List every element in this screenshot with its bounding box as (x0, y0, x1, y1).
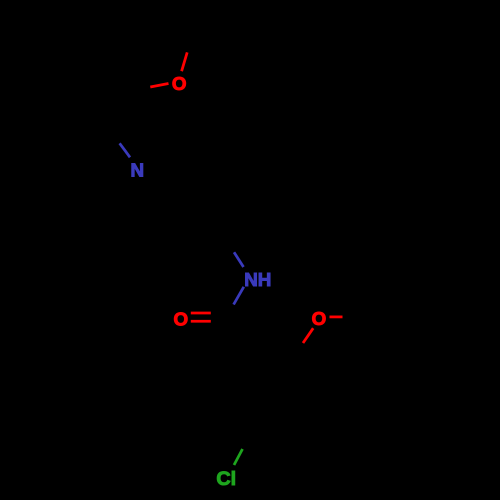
svg-text:N: N (131, 159, 145, 180)
svg-text:O: O (173, 308, 188, 329)
svg-text:Cl: Cl (216, 468, 236, 490)
svg-text:O: O (172, 73, 187, 94)
svg-text:O: O (312, 308, 327, 329)
svg-text:NH: NH (244, 269, 271, 290)
